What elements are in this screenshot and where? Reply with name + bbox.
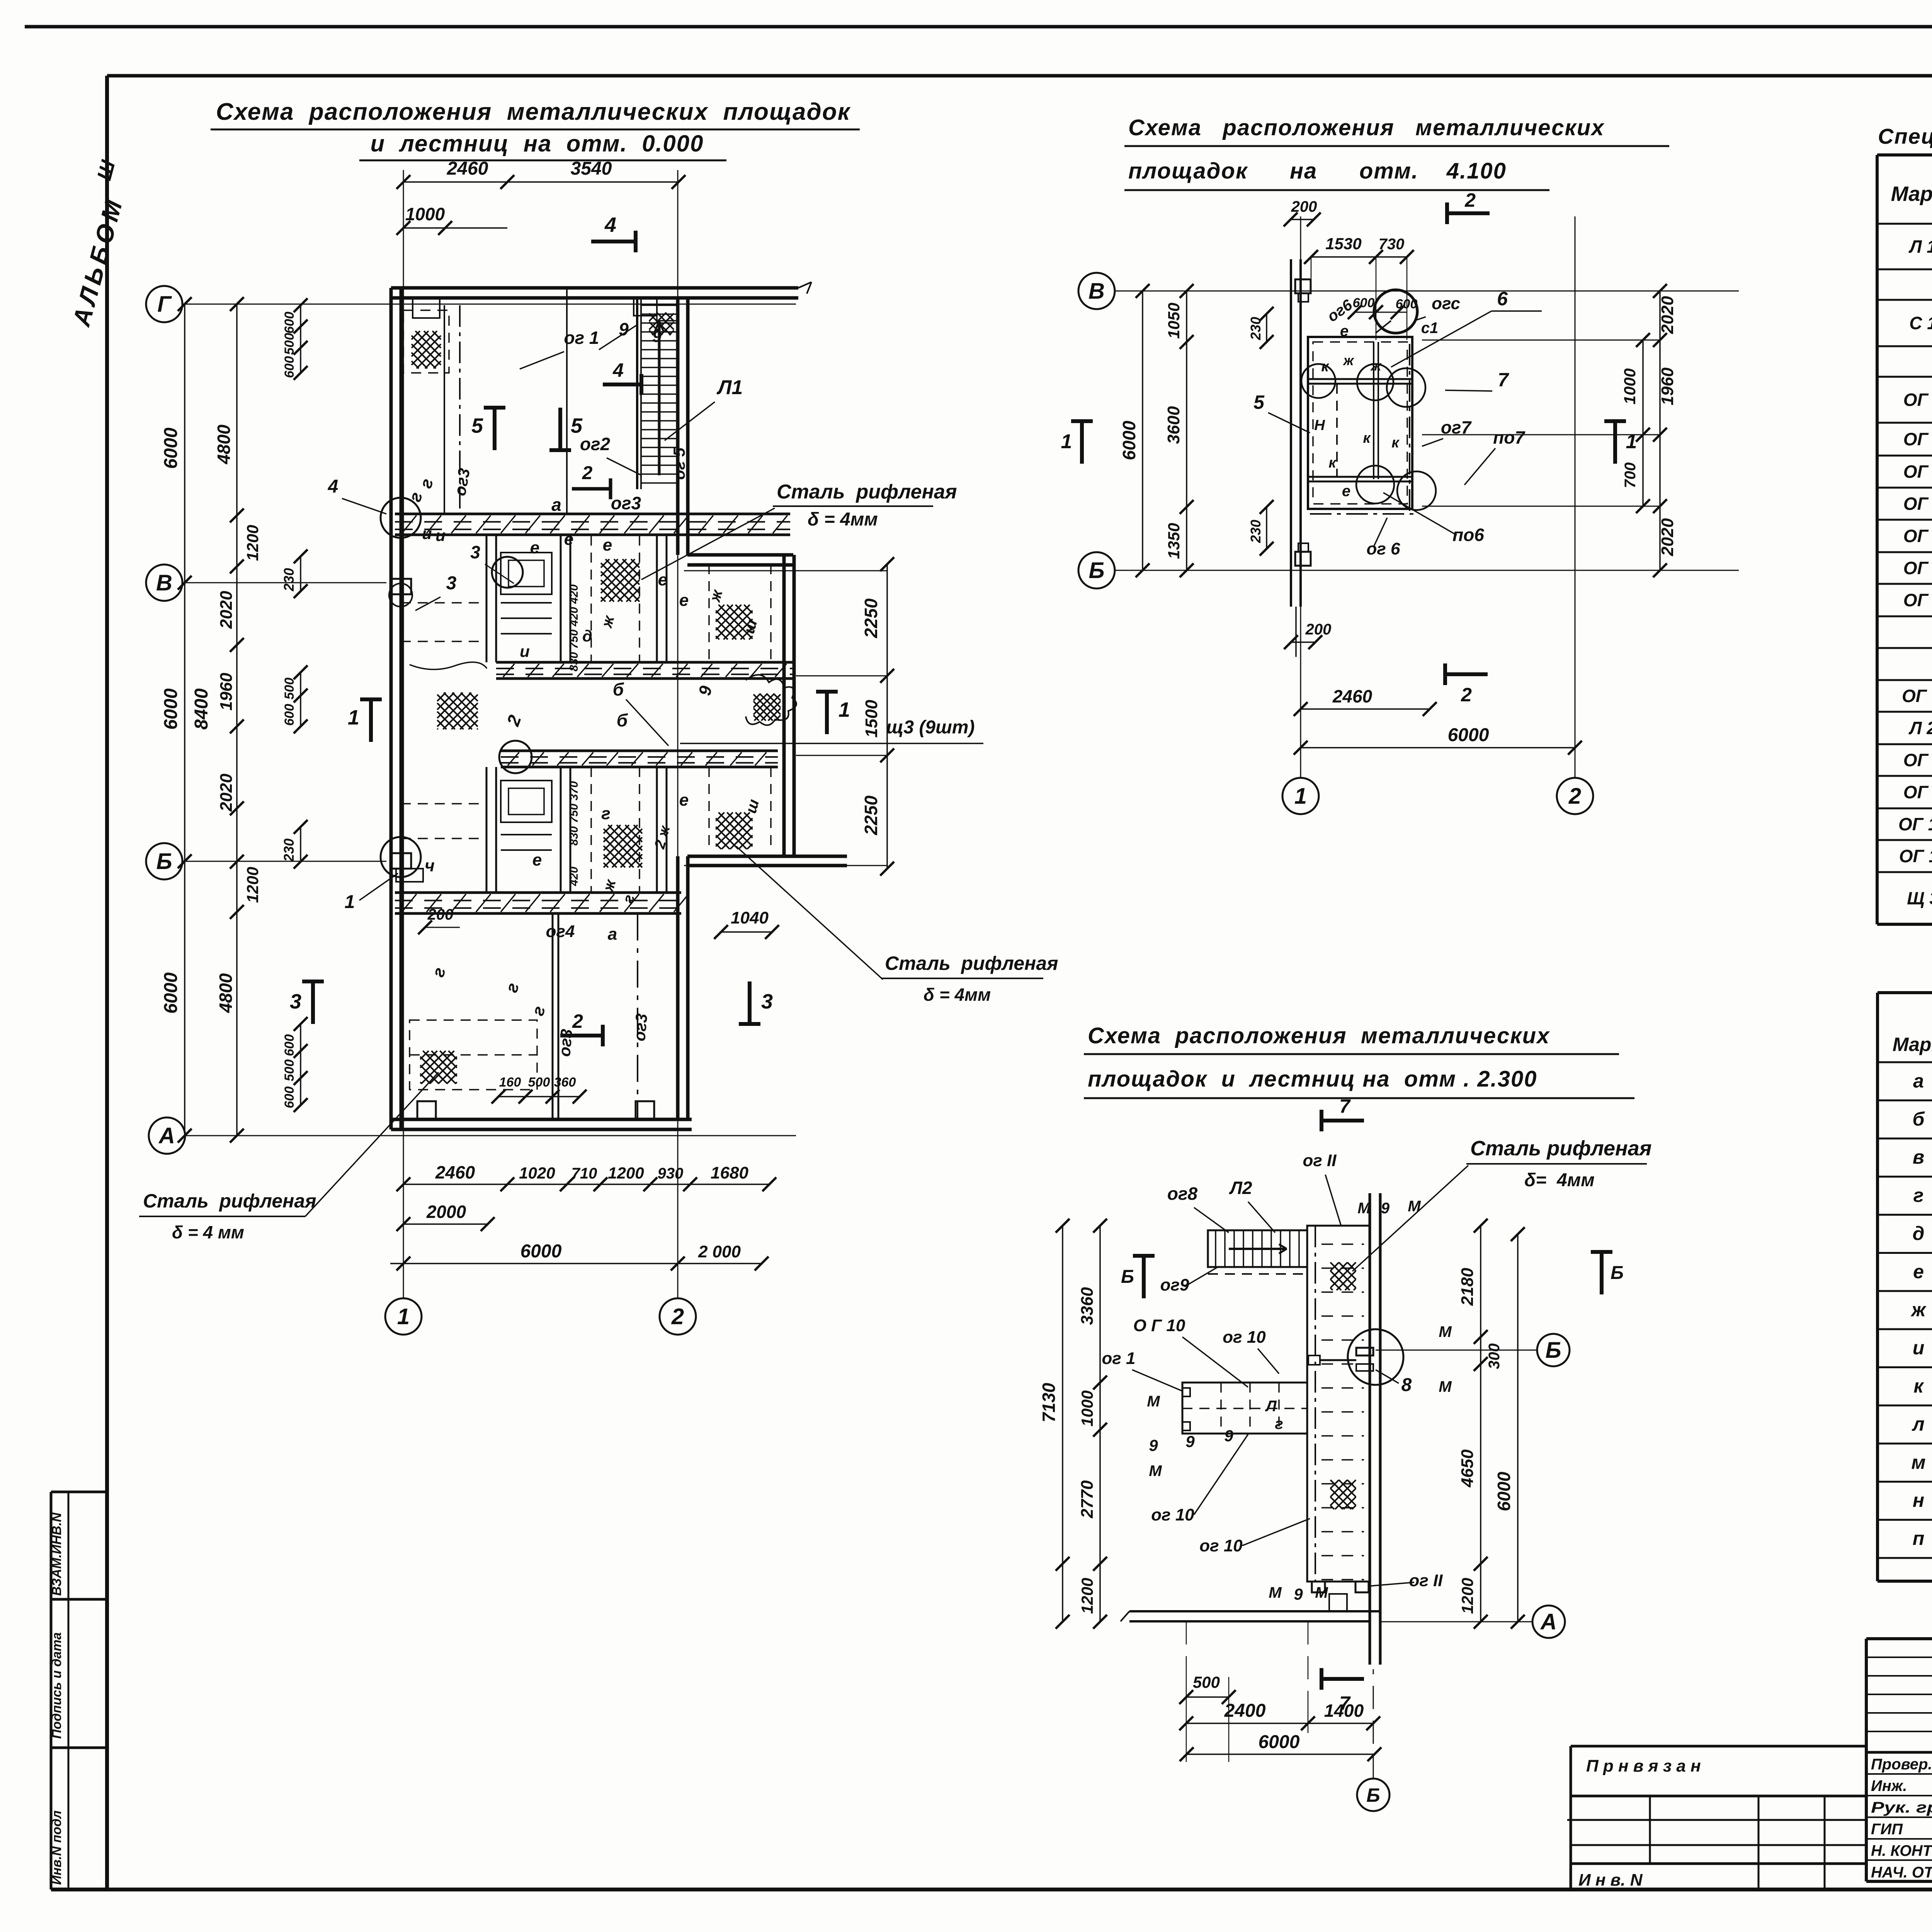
svg-text:500: 500 — [282, 1060, 297, 1082]
plan2 stremyanka circle — [1374, 290, 1417, 333]
plan1 section mark 5 pair — [471, 408, 583, 450]
svg-text:Б: Б — [1545, 1338, 1561, 1363]
plan2 left dims — [1119, 284, 1274, 577]
plan3 steel note — [1352, 1137, 1651, 1271]
spec row Л 1 — [1908, 236, 1932, 257]
svg-text:ОГ 11: ОГ 11 — [1899, 846, 1932, 866]
plan2 labels — [1253, 288, 1542, 558]
svg-text:1000: 1000 — [405, 204, 445, 224]
plan1 axis 1 — [385, 170, 422, 1335]
svg-text:δ = 4мм: δ = 4мм — [923, 985, 991, 1005]
svg-text:1: 1 — [345, 892, 355, 912]
plan1 bottom dims row1 — [396, 1162, 776, 1191]
svg-text:ОГ 8: ОГ 8 — [1903, 750, 1932, 770]
plan1 steel note bottom left — [139, 1072, 439, 1242]
plan2 axis 1 circle — [1282, 216, 1319, 814]
spec row Щ 3 — [1907, 876, 1932, 922]
vedomost row л — [1912, 1413, 1932, 1435]
svg-text:6000: 6000 — [161, 972, 181, 1014]
plan1 platform band A with og3 — [395, 493, 790, 535]
svg-text:О Г 10: О Г 10 — [1133, 1316, 1185, 1335]
svg-text:4800: 4800 — [216, 973, 236, 1013]
plan1 top wall — [391, 282, 811, 298]
svg-text:1: 1 — [1626, 430, 1637, 453]
plan2 axis B circle — [1078, 552, 1739, 588]
plan1 top wall small niches — [413, 298, 678, 321]
svg-text:6000: 6000 — [1119, 420, 1139, 460]
plan2 platform outline — [1308, 337, 1414, 514]
plan1 platform band C — [501, 751, 778, 767]
svg-text:1020: 1020 — [519, 1164, 555, 1182]
plan1 left wall — [391, 288, 401, 1129]
svg-text:д: д — [582, 627, 592, 645]
svg-text:к: к — [1913, 1375, 1924, 1397]
svg-text:М: М — [1439, 1323, 1452, 1340]
plan1 mid dashed room lines — [401, 603, 487, 838]
svg-text:Л2: Л2 — [1229, 1178, 1252, 1198]
svg-text:Сталь рифленая: Сталь рифленая — [885, 952, 1058, 974]
title block people rows — [1871, 1754, 1932, 1881]
svg-text:6000: 6000 — [1259, 1732, 1300, 1752]
plan1 bump interior lower — [709, 767, 771, 849]
svg-text:600: 600 — [282, 356, 297, 378]
svg-text:2770: 2770 — [1078, 1480, 1097, 1519]
svg-text:420: 420 — [568, 867, 580, 886]
plan3 labels left — [1102, 1267, 1310, 1555]
svg-text:7: 7 — [1498, 369, 1509, 391]
svg-text:600: 600 — [282, 704, 297, 726]
svg-text:ОГ 7: ОГ 7 — [1903, 590, 1932, 610]
plan3 mid platform strip — [1182, 1383, 1307, 1434]
plan2 section marks 1 — [1061, 421, 1637, 464]
svg-text:700: 700 — [1622, 463, 1639, 488]
plan1 section mark 1 right — [816, 692, 850, 734]
svg-text:ОГ С: ОГ С — [1902, 686, 1932, 706]
svg-text:и: и — [520, 642, 530, 660]
svg-text:Б: Б — [1366, 1784, 1380, 1806]
svg-text:2: 2 — [572, 1010, 583, 1032]
svg-text:830 750 420 420: 830 750 420 420 — [568, 584, 580, 672]
svg-text:3600: 3600 — [1164, 406, 1183, 444]
svg-text:ог2: ог2 — [580, 434, 611, 454]
left margin strip (inv/podpis/vzam) — [49, 1492, 107, 1889]
svg-text:500: 500 — [1193, 1673, 1220, 1691]
svg-text:2: 2 — [1461, 684, 1472, 706]
svg-text:Б: Б — [1611, 1263, 1624, 1283]
svg-text:2180: 2180 — [1458, 1268, 1477, 1306]
svg-text:е: е — [679, 791, 689, 810]
svg-text:н: н — [1913, 1490, 1924, 1511]
svg-text:9: 9 — [1224, 1427, 1233, 1445]
plan1 top-left room dashed platform — [403, 305, 473, 514]
svg-text:1200: 1200 — [608, 1164, 644, 1182]
plan1 left dims outer — [161, 297, 212, 1143]
plan1 label 4 top band callout — [328, 476, 386, 514]
plan3 labels right — [1269, 1323, 1452, 1603]
svg-text:ог 1: ог 1 — [564, 328, 599, 348]
svg-text:ог II: ог II — [1409, 1571, 1443, 1590]
svg-text:2: 2 — [1568, 784, 1581, 809]
svg-text:2460: 2460 — [447, 158, 488, 179]
svg-text:1200: 1200 — [243, 867, 262, 903]
svg-text:е: е — [532, 850, 542, 869]
svg-text:М: М — [1147, 1393, 1160, 1410]
svg-text:по6: по6 — [1452, 525, 1484, 545]
svg-text:ж: ж — [1910, 1299, 1927, 1321]
svg-text:4800: 4800 — [214, 424, 234, 464]
frame left line — [105, 76, 109, 1889]
plan1 small dims 160 500 360 — [492, 1075, 587, 1104]
plan1 section mark 4 mid — [603, 359, 641, 395]
svg-text:е: е — [658, 570, 667, 589]
svg-text:2000: 2000 — [426, 1202, 466, 1222]
specification table title — [1878, 124, 1932, 148]
plan3 section marks B — [1121, 1252, 1624, 1298]
svg-text:М: М — [1439, 1378, 1452, 1395]
svg-text:5: 5 — [571, 414, 583, 437]
svg-text:1000: 1000 — [1078, 1390, 1096, 1426]
svg-text:ч: ч — [425, 856, 435, 875]
svg-text:2460: 2460 — [435, 1162, 475, 1182]
svg-text:1960: 1960 — [1658, 367, 1677, 405]
plan1 bottom dims row3 — [390, 1241, 769, 1270]
svg-text:ог II: ог II — [1303, 1151, 1337, 1170]
plan1 steel note bottom right — [736, 846, 1058, 1005]
svg-text:1530: 1530 — [1325, 235, 1361, 253]
plan1 top dimension 1000 — [396, 204, 507, 235]
svg-text:3540: 3540 — [571, 158, 612, 179]
svg-text:Н: Н — [1314, 417, 1325, 434]
svg-text:к: к — [1391, 435, 1400, 451]
vedomost row в — [1913, 1146, 1932, 1168]
svg-text:2250: 2250 — [861, 795, 881, 835]
svg-text:к: к — [1321, 359, 1329, 375]
svg-text:7130: 7130 — [1039, 1383, 1059, 1422]
spec row ОГ С — [1902, 684, 1932, 709]
vedomost row г — [1913, 1184, 1932, 1206]
svg-text:ог 10: ог 10 — [1151, 1505, 1194, 1524]
svg-text:ж: ж — [1343, 352, 1355, 368]
plan1 lower partition walls — [429, 913, 651, 1119]
svg-text:1000: 1000 — [1621, 368, 1639, 404]
plan3 top stair L2 — [1208, 1230, 1307, 1274]
svg-text:ог8: ог8 — [1167, 1184, 1198, 1204]
vedomost table grid — [1878, 993, 1932, 1581]
svg-text:730: 730 — [1379, 236, 1405, 253]
plan1 section mark 4 top — [591, 213, 636, 252]
svg-text:ог3: ог3 — [555, 1028, 576, 1057]
svg-text:1: 1 — [838, 698, 850, 721]
svg-text:л: л — [1912, 1413, 1924, 1435]
svg-text:1: 1 — [348, 706, 359, 729]
plan1 label 3 callout — [415, 573, 457, 611]
svg-text:и: и — [435, 526, 446, 544]
plan2 top dims — [1284, 198, 1414, 340]
svg-text:δ = 4мм: δ = 4мм — [808, 509, 878, 530]
svg-text:500: 500 — [528, 1075, 550, 1090]
plan1 right wall upper — [678, 298, 688, 555]
plan2 main wall vertical — [1291, 259, 1311, 607]
svg-text:2: 2 — [582, 463, 593, 483]
svg-text:Б: Б — [156, 849, 172, 874]
vedomost row к — [1913, 1375, 1932, 1397]
privyazan table — [1567, 1746, 1866, 1889]
svg-text:1680: 1680 — [711, 1163, 748, 1182]
vedomost row а — [1913, 1070, 1932, 1092]
svg-text:600: 600 — [1353, 296, 1375, 310]
svg-text:ОГ 4: ОГ 4 — [1903, 494, 1932, 514]
plan1 platform band B — [496, 662, 793, 679]
svg-text:1350: 1350 — [1165, 523, 1183, 559]
svg-text:930: 930 — [658, 1165, 684, 1182]
svg-text:200: 200 — [1305, 621, 1332, 638]
plan2 section marks 2 — [1445, 189, 1490, 706]
svg-text:300: 300 — [1486, 1344, 1503, 1369]
svg-text:Спецификация к схеме располож: Спецификация к схеме расположения металл… — [1878, 124, 1932, 148]
svg-text:230: 230 — [1248, 520, 1264, 543]
svg-text:6: 6 — [1497, 288, 1508, 310]
spec row ОГ 2 — [1903, 426, 1932, 453]
plan1 axis B — [146, 843, 386, 879]
svg-text:6000: 6000 — [161, 427, 181, 469]
svg-text:Подпись и дата: Подпись и дата — [49, 1632, 64, 1739]
spec row Л 2 — [1908, 718, 1932, 741]
plan3 main platform strip — [1307, 1226, 1370, 1582]
spec row ОГ 3 — [1903, 459, 1932, 485]
svg-text:Схема расположения металличе: Схема расположения металлических площадо… — [216, 99, 851, 125]
plan3 bottom small boxes — [1312, 1582, 1369, 1611]
svg-text:3: 3 — [290, 990, 301, 1013]
spec row ОГ 9 — [1903, 779, 1932, 806]
svg-text:ог 1: ог 1 — [1102, 1349, 1135, 1368]
spec row ОГ 11 — [1899, 844, 1932, 869]
svg-text:4: 4 — [328, 476, 338, 497]
svg-text:огс: огс — [1432, 294, 1460, 313]
svg-text:а: а — [608, 925, 617, 944]
frame top line — [107, 74, 1932, 78]
svg-text:Рук. гр.: Рук. гр. — [1871, 1799, 1932, 1816]
plan2 axis V circle — [1078, 273, 1739, 309]
svg-text:Инж.: Инж. — [1871, 1777, 1907, 1794]
plan3 right dims — [1458, 1219, 1525, 1629]
svg-text:ог 10: ог 10 — [1223, 1328, 1266, 1347]
plan2 axis 2 circle — [1557, 216, 1593, 814]
svg-text:а: а — [551, 495, 561, 515]
svg-text:ОГ 5: ОГ 5 — [1903, 526, 1932, 546]
svg-text:2400: 2400 — [1224, 1701, 1266, 1721]
plan1 stair L1 label — [665, 376, 743, 440]
plan1 axis 2 — [660, 170, 696, 1335]
vedomost row и — [1913, 1337, 1932, 1359]
svg-text:230: 230 — [281, 568, 297, 592]
plan3 axis B bottom circle — [1357, 1669, 1389, 1811]
svg-text:8: 8 — [1401, 1375, 1412, 1395]
plan3 left dims — [1039, 1219, 1107, 1629]
plan1 dim 200 and 1040 — [418, 906, 779, 939]
plan1 section mark 2 bottom — [560, 1010, 603, 1046]
svg-text:площадок и лестниц на отм .: площадок и лестниц на отм . 2.300 — [1088, 1066, 1537, 1092]
plan2 title — [1124, 115, 1669, 190]
plan1 right wall lower — [678, 856, 688, 1119]
vedomost row е — [1913, 1260, 1932, 1283]
plan1 og1 label with leader — [520, 319, 662, 369]
svg-text:ог9: ог9 — [1160, 1276, 1189, 1294]
vedomost row ж — [1910, 1299, 1932, 1321]
plan1 left dims inner — [214, 297, 262, 1143]
plan2 callout circles — [1301, 364, 1436, 510]
svg-text:4650: 4650 — [1458, 1449, 1477, 1488]
svg-text:1400: 1400 — [1324, 1701, 1364, 1721]
svg-text:230: 230 — [281, 838, 297, 862]
plan1 middle room letters — [435, 526, 716, 746]
spec row ОГ 6 — [1903, 556, 1932, 581]
plan1 right dims 2250 1500 2250 — [684, 557, 894, 876]
svg-text:площадок на отм.: площадок на отм. 4.100 — [1128, 158, 1507, 184]
svg-text:е: е — [1340, 323, 1349, 340]
svg-text:1500: 1500 — [862, 700, 881, 738]
svg-text:е: е — [530, 538, 539, 557]
svg-text:δ= 4мм: δ= 4мм — [1524, 1170, 1595, 1190]
plan1 steel note top right — [641, 481, 957, 580]
svg-text:ж: ж — [1370, 358, 1382, 374]
svg-text:ВЗАМ.ИНВ.N: ВЗАМ.ИНВ.N — [49, 1512, 64, 1596]
plan1 detail circles — [381, 498, 532, 877]
svg-text:Сталь рифленая: Сталь рифленая — [777, 481, 957, 503]
svg-text:и лестниц на отм. 0.000: и лестниц на отм. 0.000 — [370, 131, 704, 156]
svg-text:ОГ 10: ОГ 10 — [1898, 814, 1932, 834]
plan3 wall vertical right — [1370, 1193, 1380, 1665]
specification table header — [1891, 176, 1932, 223]
plan1 left small dims — [281, 298, 308, 1112]
plan1 section mark 3 pair — [290, 981, 773, 1024]
vedomost row м — [1912, 1451, 1932, 1473]
svg-text:Л 1: Л 1 — [1908, 236, 1932, 257]
svg-text:д: д — [1913, 1223, 1925, 1244]
svg-text:г: г — [601, 804, 610, 823]
svg-text:С 1: С 1 — [1909, 313, 1932, 333]
plan1 equipment labels lower — [532, 781, 689, 905]
album III vertical label — [67, 158, 128, 330]
svg-text:НАЧ. ОТД: НАЧ. ОТД — [1871, 1864, 1932, 1881]
plan1 top dimension 2460 3540 — [396, 158, 685, 189]
plan1 stair L1 — [637, 298, 678, 489]
svg-text:6000: 6000 — [161, 688, 181, 730]
svg-text:Схема расположения металли: Схема расположения металлических — [1128, 115, 1605, 140]
plan1 equipment labels upper — [520, 530, 689, 672]
svg-text:500: 500 — [282, 333, 297, 355]
svg-text:600: 600 — [282, 1087, 297, 1109]
svg-text:9: 9 — [652, 327, 662, 345]
svg-text:ог 10: ог 10 — [1199, 1536, 1243, 1555]
plan3 bottom wall — [1121, 1611, 1380, 1621]
svg-text:е: е — [1913, 1261, 1924, 1282]
svg-text:б: б — [1913, 1108, 1925, 1130]
svg-text:М: М — [1408, 1198, 1421, 1215]
plan1 top stair hatch — [649, 313, 674, 335]
svg-text:е: е — [679, 591, 689, 610]
plan1 middle cloud detail — [746, 675, 796, 725]
plan3 axis A circle — [1380, 1605, 1565, 1638]
svg-text:В: В — [1088, 279, 1105, 304]
svg-text:600: 600 — [282, 312, 297, 334]
plan1 bottom column bases — [417, 1101, 654, 1119]
plan3 bottom dims — [1179, 1673, 1381, 1762]
svg-text:2: 2 — [671, 1304, 684, 1329]
plan1 label 1 callout — [345, 873, 398, 912]
svg-text:Г: Г — [157, 292, 172, 317]
svg-text:И н в. N: И н в. N — [1578, 1871, 1643, 1889]
svg-text:4: 4 — [604, 213, 616, 236]
plan1 bottom-left dashed platform — [410, 1020, 537, 1090]
svg-text:ог 5: ог 5 — [670, 447, 688, 480]
svg-text:к: к — [1363, 430, 1371, 446]
plan1 shield line and label — [680, 717, 983, 743]
svg-text:б: б — [613, 679, 624, 699]
svg-text:2460: 2460 — [1332, 686, 1372, 706]
svg-text:Марка: Марка — [1891, 182, 1932, 206]
plan1 bottom wall — [391, 1119, 692, 1129]
svg-text:е: е — [1342, 483, 1350, 500]
svg-text:М: М — [1269, 1584, 1282, 1601]
plan3 labels top — [1167, 1151, 1421, 1233]
svg-text:ОГ 1: ОГ 1 — [1903, 390, 1932, 410]
svg-text:ог3: ог3 — [611, 493, 641, 513]
svg-text:А: А — [1540, 1609, 1557, 1634]
svg-text:по7: по7 — [1493, 427, 1526, 447]
svg-text:1040: 1040 — [731, 908, 769, 927]
spec row ОГ 7 — [1903, 587, 1932, 614]
svg-text:с1: с1 — [1421, 320, 1439, 337]
plan1 equipment columns lower — [486, 767, 667, 893]
specification table grid — [1877, 155, 1932, 924]
svg-text:360: 360 — [554, 1075, 576, 1090]
svg-text:А: А — [158, 1123, 175, 1148]
svg-text:3360: 3360 — [1078, 1287, 1097, 1325]
svg-text:230: 230 — [1248, 317, 1264, 340]
svg-text:б: б — [617, 710, 628, 730]
svg-text:и: и — [1913, 1337, 1925, 1359]
svg-text:1200: 1200 — [243, 525, 262, 561]
svg-text:Инв.N подл: Инв.N подл — [49, 1810, 64, 1885]
plan1 equipment columns upper — [486, 536, 667, 662]
svg-text:Марка: Марка — [1893, 1034, 1932, 1055]
plan1 title — [211, 99, 860, 160]
svg-text:п: п — [1913, 1528, 1925, 1549]
svg-text:δ = 4 мм: δ = 4 мм — [172, 1222, 244, 1242]
svg-text:3: 3 — [446, 573, 457, 594]
svg-text:5: 5 — [1253, 391, 1265, 413]
spec row ОГ 1 — [1903, 380, 1932, 420]
plan3 vertical extension lines bottom — [1186, 1621, 1308, 1712]
svg-text:г: г — [1913, 1184, 1924, 1206]
plan3 title — [1084, 1023, 1634, 1098]
plan1 junction boxes left wall — [391, 524, 435, 882]
frame bottom line — [51, 1888, 1932, 1891]
plan1 og2 label — [572, 434, 641, 499]
vedomost row н — [1913, 1489, 1932, 1512]
svg-text:Б: Б — [1121, 1267, 1134, 1287]
svg-text:1200: 1200 — [1458, 1578, 1476, 1614]
svg-text:М: М — [1315, 1584, 1328, 1601]
svg-text:2250: 2250 — [861, 598, 881, 638]
svg-text:1: 1 — [1294, 784, 1307, 809]
plan3 junction details — [1308, 1329, 1403, 1385]
plan1 axis A — [149, 1117, 796, 1154]
svg-text:2020: 2020 — [1658, 296, 1677, 334]
svg-text:в: в — [1913, 1146, 1924, 1168]
svg-text:500: 500 — [282, 678, 297, 700]
plan3 axis B circle — [1376, 1334, 1570, 1366]
